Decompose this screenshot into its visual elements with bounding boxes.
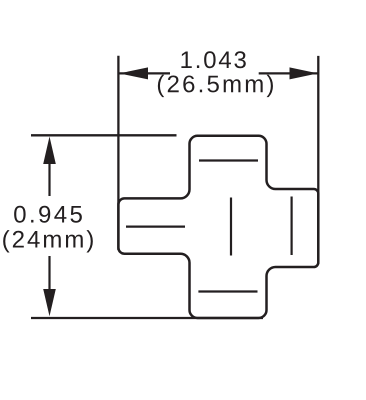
slot mark in right arm [291, 197, 293, 256]
dimension line height, lower segment [48, 256, 50, 305]
slot mark center vertical [230, 198, 232, 256]
dimension line height, upper segment [48, 150, 50, 196]
part outline (cross-shaped grommet) [118, 136, 318, 318]
extension line top (height dim) [31, 134, 177, 136]
arrowhead up [43, 137, 56, 165]
slot mark in top arm [199, 159, 258, 161]
slot mark in left arm [126, 226, 185, 228]
dimension line width, left segment [120, 72, 171, 74]
extension line right (width dim) [317, 56, 319, 264]
extension line left (width dim) [117, 56, 119, 250]
arrowhead right (points right) [290, 67, 318, 79]
label (26.5mm) [158, 75, 273, 97]
arrowhead down [43, 289, 56, 316]
label 1.043 [181, 51, 245, 68]
dimension line width, right segment [259, 72, 318, 74]
label (24mm) [3, 230, 93, 252]
slot mark in bottom arm [198, 290, 257, 292]
label 0.945 [14, 206, 82, 223]
arrowhead left (points left) [119, 67, 148, 79]
extension line bottom (height dim) [31, 317, 263, 319]
